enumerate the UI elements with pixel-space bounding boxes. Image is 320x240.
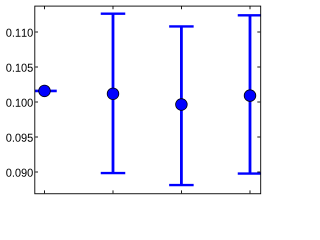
- y label 0.110: [6, 29, 33, 37]
- errorbar E4 top cap: [238, 14, 263, 16]
- y tick 0.090 left: [35, 171, 38, 173]
- errorbar E4 bottom cap: [238, 172, 263, 174]
- y label 0.090: [6, 169, 33, 177]
- errorbar E4 vertical line: [249, 15, 252, 173]
- axes frame: [35, 6, 261, 194]
- y tick 0.100 left: [35, 101, 38, 103]
- y label 0.095: [6, 134, 33, 142]
- x tick 3 bottom: [181, 190, 183, 193]
- y tick 0.105 left: [35, 66, 38, 68]
- y tick 0.090 right: [257, 171, 260, 173]
- marker M1: [39, 85, 51, 97]
- x tick 4 bottom: [249, 190, 251, 193]
- errorbar E3 top cap: [169, 25, 194, 27]
- y tick 0.095 left: [35, 136, 38, 138]
- y tick 0.110 right: [257, 31, 260, 33]
- x tick 3 top: [181, 7, 183, 10]
- x tick 1 bottom: [44, 190, 46, 193]
- x tick 2 bottom: [112, 190, 114, 193]
- errorbar E3 vertical line: [180, 26, 183, 185]
- errorbar E2 vertical line: [112, 14, 115, 173]
- errorbar E3 bottom cap: [169, 184, 194, 186]
- errorbar E2 top cap: [101, 12, 126, 14]
- marker M2: [107, 88, 119, 100]
- x tick 2 top: [112, 7, 114, 10]
- y tick 0.110 left: [35, 31, 38, 33]
- y label 0.105: [6, 64, 33, 72]
- y label 0.100: [6, 99, 33, 107]
- y tick 0.100 right: [257, 101, 260, 103]
- marker M3: [176, 99, 188, 111]
- x tick 1 top: [44, 7, 46, 10]
- errorbar E2 bottom cap: [101, 172, 126, 174]
- y tick 0.095 right: [257, 136, 260, 138]
- y tick 0.105 right: [257, 66, 260, 68]
- x tick 4 top: [249, 7, 251, 10]
- marker M4: [244, 90, 256, 102]
- errorbar E1 cap (tiny error, caps overlap): [32, 90, 57, 93]
- plot background: [0, 0, 266, 200]
